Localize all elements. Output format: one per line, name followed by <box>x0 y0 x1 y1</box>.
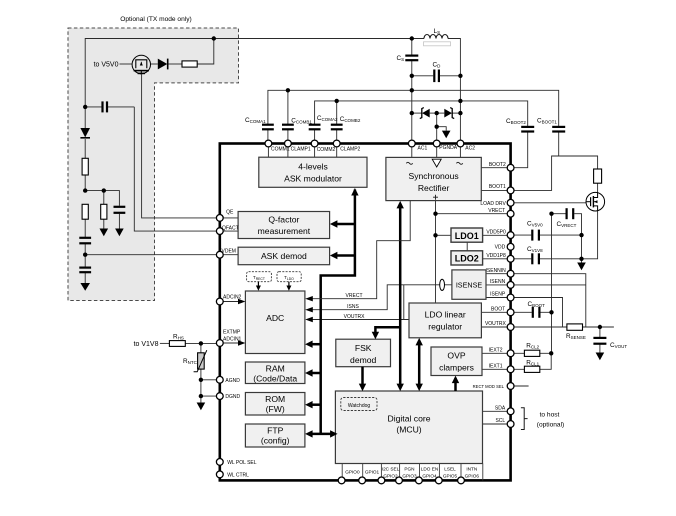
ground arrow at PGNDA branch <box>442 131 451 139</box>
arrow TLDO to ADC <box>286 282 291 291</box>
capacitor Ccomb2 <box>331 125 343 130</box>
svg-text:RECT MOD SEL: RECT MOD SEL <box>473 384 505 389</box>
block: OVP clampers <box>431 347 482 376</box>
capacitor C3 optional chain <box>79 238 91 244</box>
svg-text:CCOMB2: CCOMB2 <box>340 116 361 123</box>
svg-text:VRECT: VRECT <box>346 293 363 299</box>
wire: top line2 CCOMA2 to CBOOT2 top <box>315 101 528 126</box>
wire: AC2 vertical to pin <box>459 76 461 144</box>
svg-text:ASK demod: ASK demod <box>261 251 307 261</box>
svg-text:CV5V0: CV5V0 <box>527 221 543 228</box>
svg-text:4-levels: 4-levels <box>298 162 328 172</box>
wire: VDEM node down to cap5 <box>84 255 86 268</box>
block: LDO1 <box>451 228 483 242</box>
svg-text:COMM1: COMM1 <box>271 146 290 152</box>
sensor TLDO (dashed) <box>277 272 301 282</box>
block: 4-levels ASK modulator <box>259 157 367 187</box>
junction: CVOUT node <box>598 325 602 329</box>
junction: CV1V8 ground node <box>579 257 583 261</box>
junction: optional resistor2 node <box>102 188 106 192</box>
junction: VRECT rail top <box>549 212 553 216</box>
wire: ISENSE to ISENP pin <box>486 297 511 299</box>
thick arrow MCU to OVP clampers <box>452 376 459 391</box>
resistor at external FET drain <box>594 169 602 183</box>
svg-text:RNTC: RNTC <box>183 358 198 365</box>
wire: left chain resistor2 down to cap4 <box>84 219 86 237</box>
ground arrow below R4 <box>100 229 109 237</box>
svg-text:regulator: regulator <box>428 322 462 332</box>
wire: chain diode to resistor <box>84 139 86 158</box>
wire: optional chain vertical cap1 to diode <box>84 107 86 128</box>
svg-text:Digital core: Digital core <box>388 414 431 424</box>
svg-text:ISENN: ISENN <box>490 279 506 285</box>
svg-text:(FW): (FW) <box>266 404 285 414</box>
arrow TRECT to ADC <box>256 282 261 291</box>
wire: FET resistor to drain <box>597 183 599 192</box>
GPIO cell row separators <box>342 464 483 481</box>
junction: CCOMB1 top <box>286 88 290 92</box>
svg-text:VRECT: VRECT <box>488 208 505 214</box>
wire: branch node to right resistor and cap3 <box>85 191 119 206</box>
svg-text:Optional (TX mode only): Optional (TX mode only) <box>120 16 191 23</box>
wire: CVRECT leads <box>552 214 582 235</box>
svg-text:AGND: AGND <box>225 378 240 384</box>
capacitor Cv1v8 <box>532 253 539 264</box>
svg-text:PGN: PGN <box>404 467 414 472</box>
capacitor Cboot2 <box>521 127 534 132</box>
svg-text:(optional): (optional) <box>537 421 565 428</box>
svg-text:OVP: OVP <box>447 351 465 361</box>
thick branch arrow into ASK demod <box>330 252 355 259</box>
pin VDD1P8 <box>507 255 514 262</box>
svg-text:(config): (config) <box>261 436 290 446</box>
thermistor Rntc <box>194 350 207 372</box>
svg-text:ROM: ROM <box>265 394 285 404</box>
resistor R1 in optional area <box>182 61 197 67</box>
pin GPIO2 <box>378 477 385 484</box>
pin VDD5P0 <box>507 232 514 239</box>
pin GPIO0 <box>338 477 345 484</box>
pin VDEM <box>216 251 223 258</box>
svg-text:Synchronous: Synchronous <box>409 171 459 181</box>
wire: AC2 stub into sync rect <box>459 144 461 158</box>
wire: top line1 CCOMA1 to CBOOT1 top <box>268 90 559 126</box>
svg-text:to V5V0: to V5V0 <box>94 61 119 68</box>
pin BOOT1 <box>507 187 514 194</box>
ground arrow below C2 <box>115 229 124 237</box>
wire: CVOUT bottom lead <box>599 344 601 352</box>
block: RAM (Code/Data <box>245 362 305 384</box>
svg-text:ISENP: ISENP <box>490 292 506 298</box>
svg-text:measurement: measurement <box>258 226 311 236</box>
pin GPIO3 <box>396 477 403 484</box>
wire: ISENNIN external <box>511 274 586 327</box>
svg-text:BOOT1: BOOT1 <box>489 184 506 190</box>
pin AGND <box>216 376 223 383</box>
resistor Rcl1 <box>524 366 539 372</box>
svg-text:(Code/Data: (Code/Data <box>253 373 297 383</box>
svg-text:GPIO0: GPIO0 <box>345 470 360 475</box>
svg-text:Q-factor: Q-factor <box>268 215 299 225</box>
svg-text:FTP: FTP <box>267 426 283 436</box>
svg-text:ISENSE: ISENSE <box>456 280 483 289</box>
svg-text:QE: QE <box>226 210 234 216</box>
junction: CBOOT right node <box>549 310 553 314</box>
svg-text:LOAD DRV: LOAD DRV <box>480 201 506 207</box>
zener diode left of AC1 pair <box>420 108 430 119</box>
wire: cap3 bottom lead <box>118 214 120 229</box>
junction: Cd right <box>458 74 462 78</box>
wire: ISENP external <box>511 298 563 328</box>
svg-text:COMM2: COMM2 <box>317 147 336 153</box>
block: Q-factor measurement <box>238 212 330 239</box>
svg-text:CD: CD <box>433 62 442 69</box>
pin VRECT <box>507 210 514 217</box>
svg-text:LS: LS <box>434 28 441 35</box>
junction: optional cap1 node <box>83 105 87 109</box>
inductor Ls <box>424 35 451 46</box>
pin GPIO4 <box>416 477 423 484</box>
svg-text:GPIO1: GPIO1 <box>365 470 380 475</box>
thick bus: ASK modulator to Q-factor/ASK demod down to memory bus <box>321 190 355 434</box>
wire: cap4 to VDEM node <box>84 244 86 255</box>
junction: optional divider node <box>83 188 87 192</box>
wire: ISNS line from ISENSE to ADC corner <box>308 285 452 310</box>
svg-text:ASK modulator: ASK modulator <box>284 174 342 184</box>
resistor R3 optional chain lower <box>82 204 88 219</box>
junction: AGND node <box>199 378 203 382</box>
pin PGNDA <box>433 140 440 147</box>
svg-text:LDO EN: LDO EN <box>421 467 438 472</box>
junction: line1 x AC1 <box>410 88 414 92</box>
wire: RCL1 leads and up link <box>511 353 552 369</box>
svg-text:ADCIN2: ADCIN2 <box>223 294 242 300</box>
ground arrow below Cvout <box>596 353 605 361</box>
svg-text:INTN: INTN <box>466 467 477 472</box>
wire: RHS to EXTMP node and pin <box>185 342 220 344</box>
arrowhead: VOUTRX line into ADC <box>305 317 313 322</box>
wire: QFACT internal <box>220 230 238 232</box>
capacitor Ccoma1 <box>262 125 274 130</box>
svg-text:ADC: ADC <box>266 313 284 323</box>
resistor Rsense <box>567 324 583 330</box>
wire: Cd right lead <box>440 75 460 77</box>
arrowhead: ISNS line into ADC <box>305 307 313 312</box>
pin IEXT2 <box>507 350 514 357</box>
svg-text:GPIO5: GPIO5 <box>443 474 458 479</box>
ground arrow optional chain bottom <box>80 283 90 291</box>
block: ADC <box>245 291 305 354</box>
svg-text:BOOT: BOOT <box>491 307 505 313</box>
pin QFACT <box>216 228 223 235</box>
pin EXTMP/ADCIN1 <box>216 340 223 347</box>
svg-text:RHS: RHS <box>173 333 184 340</box>
wire: diode row AC1 to left zener <box>412 112 422 114</box>
block: FSK demod <box>336 339 391 367</box>
pin VDD <box>507 243 514 250</box>
junction: VDEM node <box>83 253 87 257</box>
wire: top rail from optional area to Ls <box>85 39 424 107</box>
svg-text:GPIO2: GPIO2 <box>383 474 398 479</box>
svg-text:VOUTRX: VOUTRX <box>344 314 366 320</box>
wire: VRECT rail down to RCL junction <box>551 214 553 354</box>
svg-text:to host: to host <box>540 411 560 418</box>
wire: AGND wire <box>201 379 220 381</box>
wire: BOOT2 internal from sync rect <box>481 167 510 169</box>
zener diode right toward AC2 <box>444 108 454 119</box>
thick branch arrow into ADC <box>305 341 321 348</box>
svg-text:CS: CS <box>397 55 405 62</box>
wire: OVP to IEXT1 pin <box>482 368 511 370</box>
pin QE <box>216 215 223 222</box>
block: LDO linear regulator <box>409 303 481 338</box>
arrowhead: bus into ASK modulator <box>351 188 358 196</box>
wire: LDO2 to VDD1P8 pin <box>483 258 511 260</box>
GPIO cell labels <box>345 467 479 479</box>
svg-text:CCOMA2: CCOMA2 <box>317 115 338 122</box>
wire: R1 to top rail <box>197 39 214 65</box>
svg-text:Rectifier: Rectifier <box>418 183 450 193</box>
pgnd triangle inside rectifier <box>432 159 441 167</box>
wire: CBOOT1 bottom lead <box>558 132 560 156</box>
MAIN CHIP OUTLINE <box>220 144 511 481</box>
pin IEXT1 <box>507 366 514 373</box>
svg-text:AC1: AC1 <box>418 146 428 152</box>
block: Digital core (MCU) <box>335 391 482 464</box>
svg-text:TLDO: TLDO <box>284 275 294 281</box>
svg-text:LDO2: LDO2 <box>455 254 479 264</box>
svg-text:DGND: DGND <box>225 394 240 400</box>
svg-text:IEXT1: IEXT1 <box>489 364 503 370</box>
thick branch arrow into Q-factor measurement <box>330 220 355 227</box>
svg-text:GPIO6: GPIO6 <box>465 474 480 479</box>
svg-text:CCOMB1: CCOMB1 <box>291 118 312 125</box>
pin CLAMP1 <box>285 140 292 147</box>
capacitor Cboot <box>533 307 540 318</box>
svg-text:Watchdog: Watchdog <box>348 403 371 409</box>
wire: D1 to R1 <box>169 63 183 65</box>
junction: CCOMB2 top <box>335 99 339 103</box>
thick branch arrow into ROM <box>305 401 321 408</box>
wire: Cd left lead <box>412 75 433 77</box>
wire: MCU to SCL pin <box>483 423 511 425</box>
wire: LDO1 input <box>436 234 452 236</box>
wire: diode row right zener to AC2 <box>452 112 460 114</box>
transistor Q2 external load FET <box>586 192 605 211</box>
junction: diode row AC1 <box>410 111 414 115</box>
capacitor Ccomb1 <box>282 125 294 130</box>
pin ISENNIN <box>507 270 514 277</box>
pin ISENP <box>507 294 514 301</box>
block: ASK demod <box>238 247 330 265</box>
wire: RECT MOD SEL stub <box>511 385 529 387</box>
wire: VOUTRX tap vertical <box>403 285 405 320</box>
block: ISENSE <box>452 270 486 299</box>
wire: RSENSE right node <box>583 326 614 328</box>
thick arrow FSK demod to MCU <box>359 367 366 391</box>
wire: BOOT1 internal from sync rect <box>481 189 510 191</box>
capacitor Cboot1 <box>552 127 565 132</box>
resistor Rcl2 <box>524 350 539 356</box>
svg-text:WL POL SEL: WL POL SEL <box>227 460 257 466</box>
svg-text:ISENNIN: ISENNIN <box>486 268 507 274</box>
pin RECT MOD SEL <box>507 383 514 390</box>
wire: Ls right to AC2 vertical <box>448 39 460 76</box>
svg-text:TRECT: TRECT <box>253 275 265 281</box>
svg-text:PGNDA: PGNDA <box>439 145 457 151</box>
wire: DGND node to ground arrow <box>200 396 202 402</box>
svg-text:EXTMP: EXTMP <box>223 329 241 335</box>
svg-text:CLAMP1: CLAMP1 <box>291 146 311 152</box>
wire: ground rail to arrow <box>581 259 583 263</box>
capacitor C2 optional branch <box>114 207 126 213</box>
transistor Q1 in optional area <box>132 55 150 74</box>
thick double arrow FTP to MCU <box>305 430 338 437</box>
wire: COMM/CLAMP pin stubs into ASK modulator <box>268 144 336 158</box>
wire: LDO linear to BOOT pin <box>481 311 510 313</box>
pin AC1 <box>408 140 415 147</box>
wire: CBOOT leads <box>511 311 552 313</box>
svg-text:CVRECT: CVRECT <box>557 221 577 228</box>
wire: RCL2 leads <box>511 352 552 354</box>
thick branch arrow into RAM <box>305 369 321 376</box>
pin BOOT <box>507 309 514 316</box>
diode D2 optional chain (pointing down) <box>80 128 90 138</box>
junction: diode row middle <box>435 111 439 115</box>
junction: LDO1 input node <box>433 233 437 237</box>
pin CLAMP2 <box>333 140 340 147</box>
ground arrow below Cv1v8 rail <box>577 263 586 271</box>
junction: Cs/Cd node <box>410 74 414 78</box>
pin GPIO1 <box>359 477 366 484</box>
wire: CCOMB2 top lead <box>336 101 338 124</box>
svg-text:VDEM: VDEM <box>222 248 236 254</box>
thick double arrow LDO linear to MCU <box>416 338 423 391</box>
capacitor C1 optional (series to QFACT) <box>103 101 108 112</box>
host bracket <box>521 408 528 430</box>
svg-text:SCL: SCL <box>495 418 505 424</box>
svg-text:clampers: clampers <box>439 363 474 373</box>
wire: ISENSE to ISENN pin <box>486 284 511 286</box>
diode D1 in optional area <box>158 59 168 70</box>
wire: OVP to IEXT2 pin <box>482 352 511 354</box>
wire: AC1 stub into sync rect <box>411 144 413 158</box>
block: Synchronous Rectifier U2 <box>386 157 481 200</box>
sensor TRECT (dashed) <box>247 272 272 282</box>
pin VOUTRX <box>507 324 514 331</box>
junction: Cs top <box>410 36 414 40</box>
ground arrow below DGND node <box>197 403 206 411</box>
pin COMM2 <box>311 140 318 147</box>
current sense ellipse on ISNS line <box>440 279 445 290</box>
junction: RCL node <box>549 351 553 355</box>
wire: right resistor top lead <box>103 191 105 205</box>
svg-text:WL CTRL: WL CTRL <box>227 472 249 478</box>
svg-text:SDA: SDA <box>495 406 506 412</box>
pin ADCIN2 <box>216 298 223 305</box>
wire: to V1V8 lead to RHS <box>160 342 170 344</box>
svg-text:LDO linear: LDO linear <box>425 310 466 320</box>
pin WL CTRL <box>216 471 223 478</box>
capacitor Cd <box>434 70 439 83</box>
svg-text:RCL1: RCL1 <box>526 359 539 366</box>
wire: CV1V8 leads <box>511 258 582 260</box>
wire: DGND wire <box>201 395 220 397</box>
wire: AC1 vertical Cs to pin <box>411 39 413 144</box>
svg-text:CVOUT: CVOUT <box>610 342 627 349</box>
pin LOAD DRV <box>507 199 514 206</box>
arrow EXTMP/ADCIN1 into ADC <box>220 340 246 345</box>
wire: BOOT2 to CBOOT2 <box>511 132 528 168</box>
resistor R2 optional chain upper <box>82 158 88 175</box>
svg-text:ISNS: ISNS <box>347 304 359 310</box>
resistor Rhs <box>169 341 185 347</box>
pin WL POL SEL <box>216 459 223 466</box>
capacitor Cvout <box>593 338 606 344</box>
optional TX mode region (gray dashed L-shape) <box>68 16 239 301</box>
svg-text:RSENSE: RSENSE <box>566 333 586 340</box>
resistor R4 optional branch <box>101 204 107 219</box>
junction: PGNDA ground branch <box>435 125 439 129</box>
wire: LDO1 to VDD5P0 pin <box>483 234 511 236</box>
block: FTP (config) <box>245 424 305 447</box>
svg-text:GPIO4: GPIO4 <box>422 474 437 479</box>
junction: DGND node <box>199 394 203 398</box>
block: Watchdog (dashed) <box>341 398 377 411</box>
capacitor Cs <box>405 56 418 61</box>
svg-text:QFACT: QFACT <box>222 225 239 231</box>
wire: QE line from mosfet M1 <box>142 75 220 218</box>
svg-text:FSK: FSK <box>355 343 372 353</box>
wire: cap5 to ground arrow <box>84 273 86 284</box>
capacitor Ccoma2 <box>309 125 321 130</box>
svg-text:VOUTRX: VOUTRX <box>485 321 507 327</box>
pin GPIO5 <box>435 477 442 484</box>
svg-text:VDD5P0: VDD5P0 <box>486 229 506 235</box>
svg-text:AC2: AC2 <box>465 146 475 152</box>
svg-text:BOOT2: BOOT2 <box>489 162 506 168</box>
junction: CV5V0 ground node <box>579 233 583 237</box>
arrow ADCIN2 into ADC <box>220 299 246 304</box>
svg-text:VDD1P8: VDD1P8 <box>486 253 506 259</box>
svg-text:(MCU): (MCU) <box>396 425 421 435</box>
svg-text:LDO1: LDO1 <box>455 231 479 241</box>
svg-text:CBOOT2: CBOOT2 <box>506 118 526 125</box>
pin SDA <box>507 408 514 415</box>
pin DGND <box>216 393 223 400</box>
capacitor C4 optional chain bottom <box>79 268 91 273</box>
svg-text:RCL2: RCL2 <box>526 342 539 349</box>
junction: VRECT node below rectifier <box>433 212 437 216</box>
wire: CVOUT top lead <box>599 327 601 337</box>
junction: optional top rail <box>212 36 216 40</box>
capacitor Cvrect <box>567 208 574 219</box>
block: LDO2 <box>451 251 483 265</box>
pin COMM1 <box>265 140 272 147</box>
svg-text:IEXT2: IEXT2 <box>489 348 503 354</box>
junction: line2 x AC2 <box>458 99 462 103</box>
wire: to V5V0 gate lead <box>120 63 133 65</box>
junction: EXTMP node <box>199 341 203 345</box>
svg-text:RAM: RAM <box>266 363 285 373</box>
wire: MCU to SDA pin <box>483 410 511 412</box>
wire: BOOT1 to CBOOT1 and FET resistor <box>511 156 598 190</box>
wire: CCOMB1 top lead <box>287 90 289 124</box>
svg-text:to V1V8: to V1V8 <box>134 341 159 348</box>
wire: VDEM line to pin <box>85 254 220 256</box>
svg-text:CBOOT1: CBOOT1 <box>537 117 557 124</box>
svg-text:LSEL: LSEL <box>444 467 456 472</box>
